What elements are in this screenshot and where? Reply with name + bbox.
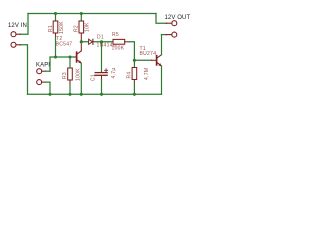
junction dot R2 top rail <box>80 12 83 15</box>
svg-text:R3: R3 <box>62 72 68 79</box>
svg-text:BC547: BC547 <box>56 42 73 48</box>
svg-text:150K: 150K <box>59 21 65 34</box>
svg-text:12V IN: 12V IN <box>8 23 27 29</box>
junction dot R3 bottom rail <box>68 93 71 96</box>
svg-text:12V OUT: 12V OUT <box>165 15 191 21</box>
resistor R4 <box>132 60 137 94</box>
svg-text:10K: 10K <box>84 22 90 32</box>
terminal X2-1 12V OUT pin 1 <box>166 21 177 26</box>
terminal X1-1 12V IN pin 1 <box>11 32 20 37</box>
svg-text:D1: D1 <box>97 35 104 41</box>
junction dot R4 bottom rail <box>133 93 136 96</box>
junction dot R4 top node <box>133 59 136 62</box>
wire bottom rail net GND <box>28 93 162 95</box>
wire R4 node to T1 base <box>134 59 151 61</box>
junction dot T2 emitter bottom rail <box>80 93 83 96</box>
wire top rail net +12V <box>28 13 156 15</box>
svg-text:R4: R4 <box>126 72 132 79</box>
svg-text:100K: 100K <box>76 68 82 81</box>
resistor R1 <box>53 14 58 58</box>
resistor R2 <box>79 14 84 42</box>
svg-text:R2: R2 <box>74 25 80 32</box>
svg-text:R5: R5 <box>112 32 119 38</box>
wire 12V OUT pin 2 to T1 collector <box>162 34 167 36</box>
svg-text:4,7M: 4,7M <box>144 68 150 80</box>
junction dot R1 top rail <box>54 12 57 15</box>
svg-text:4,7µ: 4,7µ <box>111 67 117 78</box>
wire 12V IN pin1 to top rail <box>20 14 28 35</box>
resistor R3 <box>68 57 73 94</box>
svg-text:R1: R1 <box>48 25 54 32</box>
wire diode net to C1 node <box>81 41 113 43</box>
svg-text:C1: C1 <box>91 74 97 81</box>
junction dot C1 top node <box>100 40 103 43</box>
terminal X1-2 12V IN pin 2 <box>11 42 20 47</box>
junction dot T2 collector node <box>80 40 83 43</box>
junction dot KAPI bottom rail <box>48 93 51 96</box>
junction dot C1 bottom rail <box>100 93 103 96</box>
svg-text:BU274: BU274 <box>140 51 157 57</box>
resistor R5 <box>113 39 134 60</box>
svg-text:100K: 100K <box>112 46 125 52</box>
svg-text:KAPI: KAPI <box>36 63 50 69</box>
wire top rail to 12V OUT pin 1 <box>156 14 167 24</box>
transistor T2 <box>74 42 82 95</box>
capacitor C1 <box>95 42 107 95</box>
terminal KAPI pin 1 <box>37 69 50 74</box>
junction dot base wire R3 <box>68 55 71 58</box>
diode D1 <box>89 39 93 44</box>
transistor T1 <box>152 35 162 95</box>
terminal KAPI pin 2 <box>37 80 50 95</box>
wire base net KAPI to T2 <box>50 57 74 71</box>
terminal X2-2 12V OUT pin 2 <box>166 32 177 37</box>
junction dot R1 base wire <box>54 55 57 58</box>
wire 12V IN pin2 to bottom rail <box>20 45 28 95</box>
